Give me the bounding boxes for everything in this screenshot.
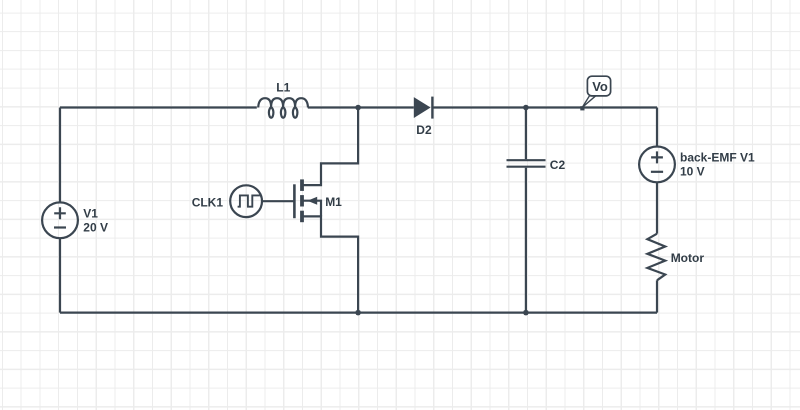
wire right rail mid (back-EMF V1 to Motor)	[656, 182, 658, 233]
svg-text:D2: D2	[416, 123, 432, 137]
svg-text:V1: V1	[83, 207, 98, 221]
mosfet M1 channel top segment	[300, 179, 304, 191]
mosfet M1 channel bottom segment	[300, 211, 304, 223]
svg-text:C2: C2	[550, 158, 566, 172]
svg-text:Vo: Vo	[592, 79, 608, 94]
wire left rail upper (top corner down to V1 source)	[59, 108, 61, 203]
svg-text:back-EMF V1: back-EMF V1	[680, 151, 755, 165]
wire CLK1 to M1 gate	[262, 200, 294, 202]
mosfet M1 bulk arrowhead	[307, 197, 317, 205]
wire top rail (L1 to D2 anode)	[308, 106, 414, 108]
svg-text:Motor: Motor	[671, 251, 705, 265]
wire left rail lower (V1 source to bottom rail)	[59, 238, 61, 312]
voltage source back-EMF V1 circle	[639, 147, 675, 183]
wire top rail (D2 cathode to right corner)	[433, 106, 657, 108]
diode D2 cathode bar	[431, 97, 433, 119]
CLK1 square wave glyph	[238, 195, 260, 206]
junction dot top rail / M1 drain	[355, 105, 361, 111]
V1 plus sign	[54, 207, 66, 219]
clock source CLK1 circle	[230, 185, 262, 217]
capacitor C2 bottom lead	[525, 168, 527, 313]
junction dot top rail / C2	[523, 105, 529, 111]
wire right rail lower (Motor to bottom rail)	[656, 280, 658, 312]
svg-text:CLK1: CLK1	[192, 196, 224, 210]
wire M1 drain to top rail junction	[303, 108, 358, 186]
wire M1 bulk tie	[303, 201, 321, 217]
svg-text:10 V: 10 V	[680, 165, 705, 179]
node Vo probe dot	[580, 106, 584, 110]
capacitor C2 top lead	[525, 108, 527, 160]
back-EMF V1 plus sign	[651, 151, 663, 163]
node Vo label box	[587, 76, 610, 96]
inductor L1	[258, 98, 308, 118]
wire bottom rail	[60, 312, 657, 314]
svg-text:M1: M1	[325, 195, 342, 209]
capacitor C2 bottom plate	[507, 166, 546, 168]
mosfet M1 gate bar	[293, 184, 296, 218]
junction dot bottom rail / M1 source	[355, 310, 361, 316]
svg-text:L1: L1	[276, 80, 290, 94]
wire top rail left (V1 top to L1)	[60, 106, 257, 108]
V1 minus sign	[54, 226, 66, 228]
resistor Motor	[647, 234, 665, 281]
back-EMF V1 minus sign	[651, 171, 663, 173]
diode D2 triangle	[414, 97, 431, 118]
voltage source V1 circle	[42, 202, 78, 238]
node Vo probe tail	[582, 96, 595, 108]
wire M1 source to bottom rail junction	[303, 216, 358, 312]
mosfet M1 channel middle segment	[300, 195, 304, 206]
wire right rail upper (top corner to back-EMF V1)	[656, 108, 658, 147]
capacitor C2 top plate	[507, 159, 546, 161]
svg-text:20 V: 20 V	[83, 221, 108, 235]
junction dot bottom rail / C2	[523, 310, 529, 316]
